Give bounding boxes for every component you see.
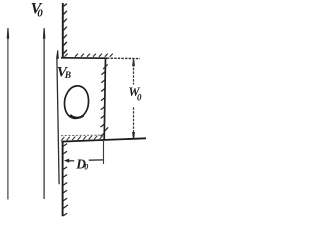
svg-text:0: 0 xyxy=(84,163,88,172)
dimension W0: upper segment with up arrow xyxy=(132,59,135,84)
D0 extension line from cavity corner xyxy=(103,140,105,164)
hatching ticks on upper-left wall xyxy=(64,4,67,54)
cavity right wall xyxy=(104,58,105,140)
hatching ticks above cavity top edge xyxy=(65,54,113,57)
hatching ticks on lower-left wall xyxy=(63,144,68,216)
dimension W0: lower segment with down arrow xyxy=(132,107,135,139)
wall lower-left segment xyxy=(62,141,64,217)
dimension D0 line with left arrow xyxy=(64,159,104,163)
arrow VB (boundary velocity along cavity mouth) xyxy=(56,50,59,184)
cavity bottom edge (with D0 extension to right border) xyxy=(62,138,147,141)
hatching ticks above cavity bottom edge xyxy=(61,136,103,141)
flow arrow 2 (middle, velocity V0) xyxy=(43,28,46,199)
svg-text:0: 0 xyxy=(137,92,142,102)
recirculation vortex ellipse xyxy=(64,86,88,118)
label W0 xyxy=(128,85,142,102)
wall upper-left segment xyxy=(62,3,64,58)
flow arrow 1 (left, velocity V0) xyxy=(7,28,10,200)
faint dotted line above cavity bottom xyxy=(61,134,104,137)
cavity top edge (with W0 extension line) xyxy=(61,57,107,59)
svg-text:0: 0 xyxy=(37,8,43,20)
label V0 xyxy=(31,1,44,20)
svg-text:B: B xyxy=(64,71,71,81)
label VB xyxy=(57,64,71,81)
label D0 xyxy=(75,156,88,171)
hatching ticks on cavity right wall xyxy=(100,64,108,136)
